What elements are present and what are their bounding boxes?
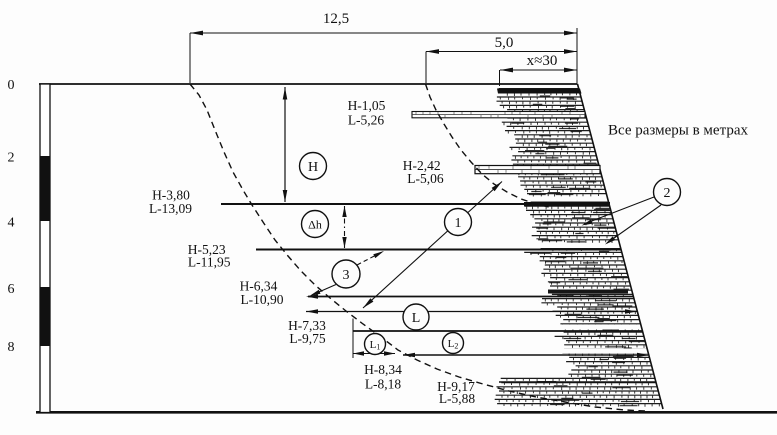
left depth scale bar bbox=[40, 84, 50, 413]
circled label 3 bbox=[332, 260, 360, 288]
reinforcement strip H-9,17 bbox=[499, 381, 656, 383]
circled label L2 bbox=[443, 333, 464, 354]
svg-text:L-5,88: L-5,88 bbox=[439, 391, 476, 406]
svg-text:L-11,95: L-11,95 bbox=[188, 255, 231, 270]
svg-text:L-5,06: L-5,06 bbox=[407, 171, 444, 186]
svg-text:2: 2 bbox=[8, 151, 15, 166]
dimension 5,0 bbox=[426, 51, 577, 53]
circled label 1 bbox=[445, 209, 472, 236]
leader arrows from circle 2 to wall bbox=[584, 197, 654, 224]
svg-text:L-9,75: L-9,75 bbox=[289, 331, 326, 346]
base ground line bbox=[36, 411, 777, 414]
circled label Delta-h bbox=[302, 211, 329, 238]
leader arrow from circle 3 up to strip H-5,23 (dashed) bbox=[357, 253, 381, 266]
svg-text:Все размеры в метрах: Все размеры в метрах bbox=[608, 123, 748, 139]
svg-text:L-13,09: L-13,09 bbox=[149, 201, 192, 216]
wall face line bbox=[578, 84, 664, 409]
reinforcement strip H-5,23 bbox=[256, 249, 621, 251]
dimension 12,5 bbox=[190, 32, 577, 34]
circled label H bbox=[300, 153, 327, 180]
dimension H (vertical double arrow) bbox=[284, 87, 286, 202]
svg-text:L-10,90: L-10,90 bbox=[240, 292, 283, 307]
svg-text:2: 2 bbox=[664, 186, 671, 201]
dimension line L bbox=[306, 311, 637, 313]
svg-text:1: 1 bbox=[455, 216, 462, 231]
reinforcement strip H-1,05 bbox=[412, 112, 585, 118]
svg-text:L-5,26: L-5,26 bbox=[348, 113, 385, 128]
reinforcement strip H-2,42 bbox=[475, 166, 600, 174]
svg-text:Δh: Δh bbox=[308, 218, 322, 232]
svg-text:4: 4 bbox=[8, 216, 15, 231]
reinforcement strip H-3,80 bbox=[221, 203, 609, 205]
svg-text:H-8,34: H-8,34 bbox=[364, 362, 402, 377]
svg-text:6: 6 bbox=[8, 282, 15, 297]
dark course at strip H-3,80 level bbox=[524, 202, 610, 206]
svg-text:H-1,05: H-1,05 bbox=[348, 98, 386, 113]
double leader arrow through circle 1 bbox=[363, 182, 502, 309]
svg-text:8: 8 bbox=[8, 340, 15, 355]
svg-text:5,0: 5,0 bbox=[495, 35, 514, 51]
retaining wall facing (brick band) bbox=[495, 89, 662, 404]
ground surface (top line of soil block) bbox=[39, 83, 578, 85]
dark course at strip H-6,34 level bbox=[548, 290, 628, 294]
svg-text:12,5: 12,5 bbox=[323, 11, 349, 27]
dimension line L1 bbox=[353, 353, 395, 355]
dark top course of wall bbox=[497, 89, 582, 94]
shared right extension line bbox=[576, 28, 578, 84]
reinforcement strip H-7,33 bbox=[353, 330, 642, 332]
svg-text:0: 0 bbox=[8, 78, 15, 93]
circled label 2 bbox=[654, 179, 681, 206]
circled label L bbox=[403, 304, 429, 330]
reinforcement strip H-6,34 bbox=[308, 296, 633, 298]
dimension x=30 bbox=[500, 69, 577, 71]
L1 extension tick bbox=[352, 319, 354, 359]
slip surface curve A (dashed) bbox=[190, 84, 646, 411]
svg-text:x≈30: x≈30 bbox=[527, 53, 558, 69]
leader arrow from circle 3 down to strip H-6,34 bbox=[312, 285, 336, 296]
circled label L1 bbox=[365, 334, 386, 355]
svg-text:L: L bbox=[412, 311, 421, 326]
white separation gaps above strip lines inside wall bbox=[521, 197, 610, 202]
svg-text:3: 3 bbox=[343, 268, 350, 283]
svg-text:L-8,18: L-8,18 bbox=[365, 377, 402, 392]
slip surface curve B (dashed) bbox=[426, 84, 550, 207]
reinforcement strip H-8,34 with L2 dimension arrows bbox=[403, 354, 648, 356]
svg-text:H: H bbox=[308, 160, 318, 175]
dimension Delta-h (dash-dot double arrow) bbox=[344, 206, 346, 248]
